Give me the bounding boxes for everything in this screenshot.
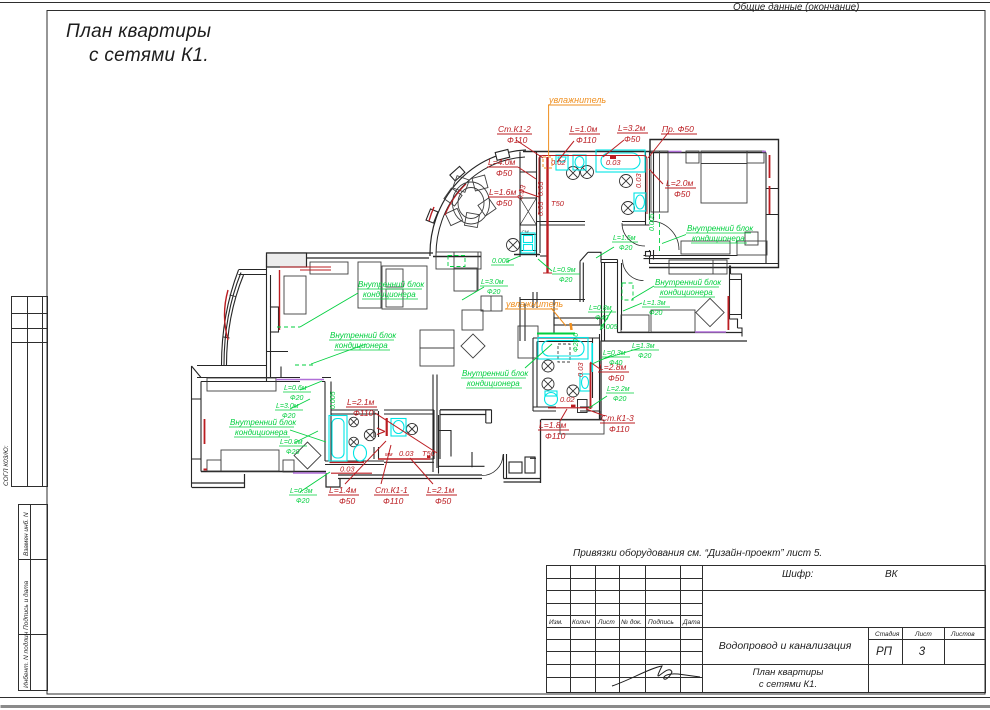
- svg-text:Ст.К1-2: Ст.К1-2: [498, 124, 531, 134]
- svg-text:Внутренний блок: Внутренний блок: [358, 280, 425, 289]
- svg-text:L=2.2м: L=2.2м: [607, 386, 630, 393]
- svg-text:L=0.3м: L=0.3м: [290, 488, 313, 495]
- svg-text:Ст.К1-3: Ст.К1-3: [601, 413, 634, 423]
- svg-text:L=1.8м: L=1.8м: [539, 420, 567, 430]
- svg-text:СМ: СМ: [522, 230, 529, 235]
- svg-text:увлажнитель: увлажнитель: [548, 95, 606, 105]
- svg-text:Ф110: Ф110: [545, 431, 566, 441]
- svg-text:Ф20: Ф20: [649, 310, 662, 317]
- svg-text:Внутренний блок: Внутренний блок: [462, 369, 529, 378]
- svg-text:L=2.1м: L=2.1м: [427, 485, 455, 495]
- svg-text:L=0.8м: L=0.8м: [589, 305, 612, 312]
- svg-text:Ст.К1-1: Ст.К1-1: [375, 485, 408, 495]
- svg-text:L=1.6м: L=1.6м: [489, 187, 517, 197]
- svg-text:Ф20: Ф20: [282, 413, 295, 420]
- svg-text:кондиционера: кондиционера: [467, 379, 520, 388]
- svg-text:L=0.6м: L=0.6м: [284, 385, 307, 392]
- svg-text:Стадия: Стадия: [875, 630, 900, 638]
- svg-text:Шифр:: Шифр:: [782, 568, 814, 580]
- svg-text:Т50: Т50: [422, 449, 436, 458]
- svg-text:0.03: 0.03: [399, 449, 414, 458]
- svg-text:L=2.1м: L=2.1м: [347, 397, 375, 407]
- svg-text:Взамен инб. N: Взамен инб. N: [22, 512, 30, 556]
- svg-text:увлажнитель: увлажнитель: [505, 299, 563, 309]
- svg-text:План квартиры: План квартиры: [753, 667, 824, 678]
- svg-text:0.03: 0.03: [340, 465, 355, 474]
- svg-text:L=3.2м: L=3.2м: [618, 123, 646, 133]
- svg-text:L=1.3м: L=1.3м: [632, 343, 655, 350]
- svg-text:Т50: Т50: [551, 199, 565, 208]
- svg-text:Пр. Ф50: Пр. Ф50: [662, 124, 694, 134]
- svg-text:Водопровод и канализация: Водопровод и канализация: [719, 640, 852, 652]
- svg-text:Внутренний блок: Внутренний блок: [330, 331, 397, 340]
- svg-text:РП: РП: [876, 646, 893, 658]
- svg-text:0.03: 0.03: [576, 362, 585, 377]
- svg-text:Ф110: Ф110: [609, 424, 630, 434]
- svg-text:Листов: Листов: [950, 631, 975, 638]
- svg-text:кондиционера: кондиционера: [692, 234, 745, 243]
- svg-text:кондиционера: кондиционера: [363, 290, 416, 299]
- svg-text:СОГЛ К03/Ю:: СОГЛ К03/Ю:: [3, 445, 10, 486]
- svg-text:0.02: 0.02: [560, 395, 575, 404]
- svg-text:L=0.9м: L=0.9м: [280, 439, 303, 446]
- svg-text:Инбент. N подлин: Инбент. N подлин: [22, 631, 30, 688]
- svg-text:Подпись и дата: Подпись и дата: [22, 580, 30, 630]
- svg-text:Ф50: Ф50: [496, 168, 512, 178]
- svg-text:Ф20: Ф20: [613, 396, 626, 403]
- svg-text:мм: мм: [385, 452, 393, 458]
- svg-text:№ док.: № док.: [621, 618, 642, 626]
- svg-text:Изм.: Изм.: [549, 619, 563, 626]
- svg-text:кондиционера: кондиционера: [660, 288, 713, 297]
- svg-text:0.02: 0.02: [551, 158, 566, 167]
- svg-text:0.03: 0.03: [606, 158, 621, 167]
- svg-text:Ф20: Ф20: [487, 289, 500, 296]
- svg-text:Ф50: Ф50: [435, 496, 451, 506]
- svg-text:Ф20: Ф20: [286, 449, 299, 456]
- svg-text:Колич: Колич: [572, 619, 591, 626]
- svg-text:Ф40: Ф40: [595, 315, 608, 322]
- svg-text:Ф20: Ф20: [638, 353, 651, 360]
- svg-text:L=1.5м: L=1.5м: [613, 235, 636, 242]
- svg-text:Лист: Лист: [914, 631, 932, 638]
- svg-text:L=1.0м: L=1.0м: [570, 124, 598, 134]
- svg-text:L=3.0м: L=3.0м: [276, 403, 299, 410]
- svg-text:кондиционера: кондиционера: [235, 428, 288, 437]
- svg-text:Ф20: Ф20: [619, 245, 632, 252]
- svg-text:Ф20: Ф20: [296, 498, 309, 505]
- svg-text:Ф40: Ф40: [609, 360, 622, 367]
- svg-text:3: 3: [919, 646, 926, 658]
- svg-text:Общие данные (окончание): Общие данные (окончание): [733, 2, 859, 13]
- svg-text:с сетями К1.: с сетями К1.: [759, 679, 817, 690]
- svg-text:L=0.9м: L=0.9м: [553, 267, 576, 274]
- svg-text:Ф50: Ф50: [674, 189, 690, 199]
- svg-text:Внутренний блок: Внутренний блок: [655, 278, 722, 287]
- svg-text:Ф110: Ф110: [507, 135, 528, 145]
- svg-text:Ф50: Ф50: [608, 373, 624, 383]
- svg-text:Подпись: Подпись: [648, 618, 674, 626]
- svg-text:Ф20: Ф20: [559, 277, 572, 284]
- svg-text:Дата: Дата: [682, 619, 701, 626]
- svg-text:Ф50: Ф50: [339, 496, 355, 506]
- svg-text:кондиционера: кондиционера: [335, 341, 388, 350]
- svg-text:Внутренний блок: Внутренний блок: [687, 224, 754, 233]
- svg-text:0.03: 0.03: [634, 173, 643, 188]
- svg-text:ВК: ВК: [885, 569, 899, 580]
- svg-text:План квартиры: План квартиры: [66, 21, 211, 42]
- svg-text:0.005: 0.005: [492, 258, 510, 265]
- svg-text:Ф20 0: Ф20 0: [573, 333, 580, 352]
- svg-text:L=1.4м: L=1.4м: [329, 485, 357, 495]
- svg-text:Ф50: Ф50: [496, 198, 512, 208]
- svg-text:L=2.0м: L=2.0м: [666, 178, 694, 188]
- svg-text:Ф110: Ф110: [576, 135, 597, 145]
- svg-text:L=0.3м: L=0.3м: [603, 350, 626, 357]
- svg-text:0.005: 0.005: [330, 391, 337, 409]
- svg-text:Ф50: Ф50: [624, 134, 640, 144]
- svg-text:0.005: 0.005: [649, 213, 656, 231]
- svg-text:L=3.0м: L=3.0м: [481, 279, 504, 286]
- svg-text:Ф20: Ф20: [290, 395, 303, 402]
- svg-text:с сетями К1.: с сетями К1.: [89, 45, 209, 66]
- svg-text:Ф110: Ф110: [383, 496, 404, 506]
- svg-text:Привязки оборудования см. “Диз: Привязки оборудования см. “Дизайн-проект…: [573, 547, 822, 559]
- svg-text:Лист: Лист: [597, 619, 615, 626]
- svg-text:0.03: 0.03: [536, 201, 545, 216]
- svg-text:0.005: 0.005: [600, 324, 618, 331]
- svg-text:L=1.3м: L=1.3м: [643, 300, 666, 307]
- svg-text:0.03: 0.03: [536, 181, 545, 196]
- svg-text:Ф110: Ф110: [353, 408, 374, 418]
- svg-text:L=4.0м: L=4.0м: [488, 157, 516, 167]
